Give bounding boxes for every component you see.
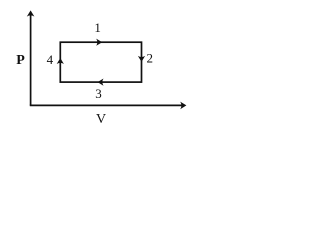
cycle rectangle (process loop)	[60, 42, 141, 82]
arrow on process 1 (top edge, pointing right)	[96, 39, 102, 46]
svg-text:1: 1	[94, 20, 101, 35]
svg-text:2: 2	[147, 51, 154, 66]
V axis arrowhead	[180, 102, 186, 110]
svg-text:V: V	[96, 112, 106, 127]
svg-text:3: 3	[95, 86, 102, 101]
svg-text:P: P	[16, 53, 25, 68]
P axis arrowhead	[27, 10, 35, 16]
svg-text:4: 4	[47, 52, 54, 67]
P axis (vertical axis line)	[30, 14, 32, 106]
arrow on process 3 (bottom edge, pointing left)	[98, 79, 104, 86]
arrow on process 4 (left edge, pointing up)	[57, 58, 64, 64]
V axis (horizontal axis line)	[30, 104, 183, 106]
arrow on process 2 (right edge, pointing down)	[138, 56, 145, 62]
